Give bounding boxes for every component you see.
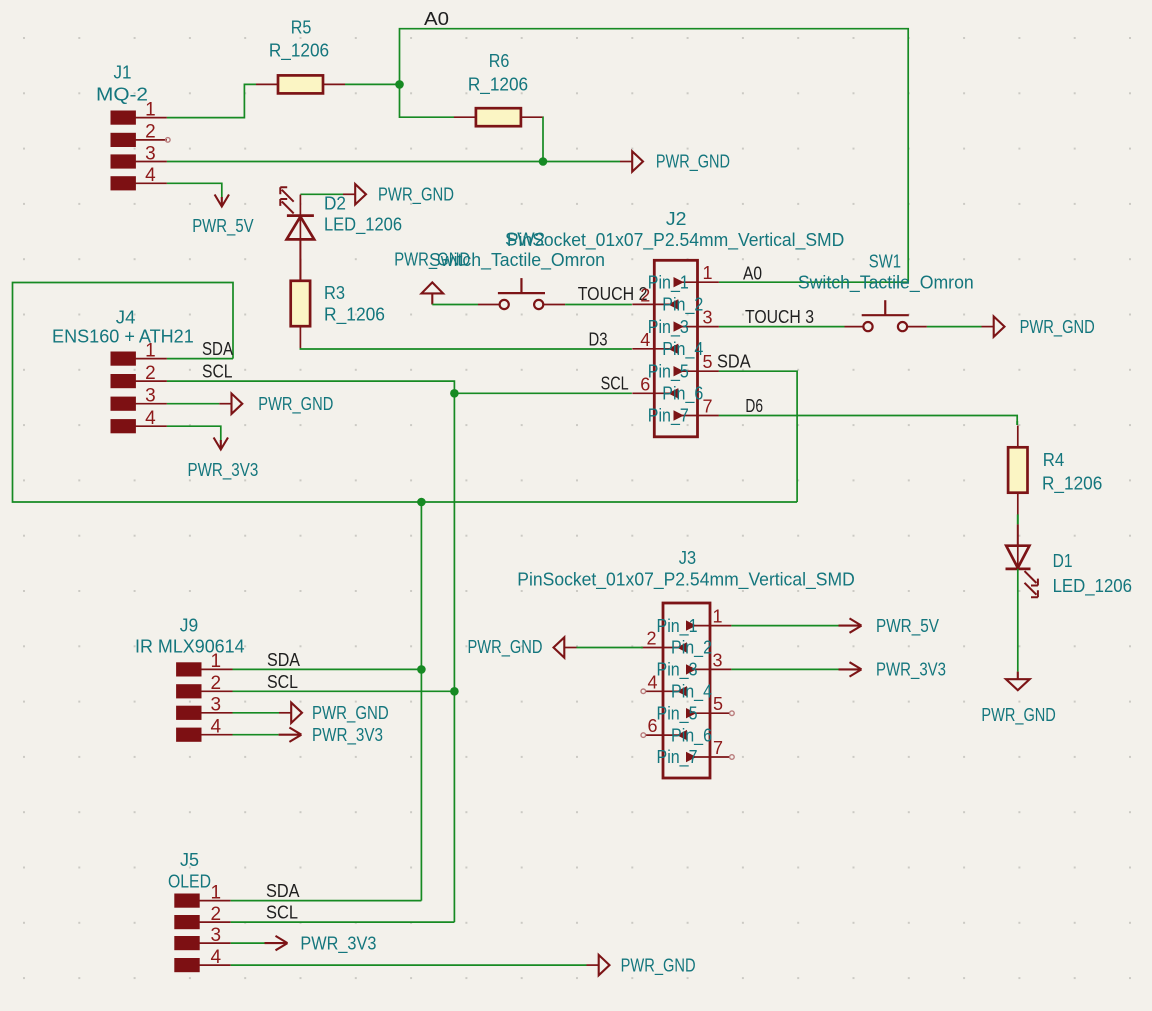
wire net SDA column down to J5: [420, 502, 422, 901]
power symbol PWR_3V3 arrow (J9): [279, 728, 302, 742]
svg-text:SDA: SDA: [267, 650, 300, 670]
wire SW1 to PWR_GND: [927, 326, 982, 328]
wire J5 pin3 to PWR_3V3: [231, 942, 265, 944]
power flag PWR_GND (D2): [343, 184, 366, 204]
wire R6 down to GND row: [542, 117, 544, 161]
svg-text:R6: R6: [489, 51, 510, 71]
wire net A0: R5/R6 junction to J2 pin1 column: [400, 29, 909, 283]
connector J9 pin 4 pad: [177, 717, 233, 742]
switch SW1 left stub: [845, 326, 864, 328]
svg-text:SCL: SCL: [601, 374, 629, 394]
connector J2 pin 1: [648, 263, 719, 293]
connector J1 pin 1 pad: [111, 99, 167, 124]
switch SW1 (tactile): [862, 300, 909, 331]
wire J4 pin1 SDA: [167, 358, 233, 360]
junction SCL branch: [450, 389, 459, 398]
svg-text:3: 3: [145, 143, 156, 164]
connector J1 pin 4 pad: [111, 165, 167, 190]
svg-text:6: 6: [640, 374, 650, 394]
svg-text:SW1: SW1: [869, 251, 901, 271]
svg-text:Pin_4: Pin_4: [671, 682, 712, 703]
svg-text:J9: J9: [180, 615, 198, 635]
wire PWR_GND to J3 pin2: [577, 647, 643, 649]
junction SDA at J9: [417, 665, 426, 674]
svg-text:PWR_3V3: PWR_3V3: [312, 725, 383, 746]
wire D1 anode lead: [1017, 524, 1019, 545]
connector J5 pin 4 pad: [175, 947, 231, 972]
svg-text:2: 2: [145, 122, 156, 143]
svg-text:SDA: SDA: [717, 352, 751, 372]
svg-text:SDA: SDA: [202, 339, 233, 359]
svg-text:MQ-2: MQ-2: [96, 84, 148, 104]
svg-text:PinSocket_01x07_P2.54mm_Vertic: PinSocket_01x07_P2.54mm_Vertical_SMD: [517, 570, 855, 591]
wire D2 anode to R3 (dark red leads): [299, 240, 301, 282]
svg-text:Pin_7: Pin_7: [648, 406, 689, 427]
svg-text:PWR_GND: PWR_GND: [378, 184, 454, 205]
power flag PWR_GND (J1 pin3 row): [620, 151, 643, 171]
power symbol PWR_5V arrow: [215, 195, 229, 207]
svg-text:3: 3: [712, 650, 722, 670]
wire net SDA loop to J4 pin1: [13, 283, 798, 503]
svg-text:Pin_7: Pin_7: [657, 747, 698, 768]
svg-text:PWR_GND: PWR_GND: [1020, 317, 1095, 338]
connector J2 body outline: [654, 260, 697, 437]
connector J9 pin 2 pad: [177, 673, 233, 698]
power flag PWR_GND down (D1): [1006, 679, 1030, 690]
junction A0 at R5/R6: [395, 80, 404, 89]
svg-text:LED_1206: LED_1206: [1053, 576, 1132, 597]
connector J3 body outline: [663, 603, 710, 778]
svg-text:4: 4: [647, 672, 657, 692]
svg-text:3: 3: [211, 695, 222, 716]
wire J1 pin4 to PWR_5V: [167, 183, 222, 197]
svg-text:3: 3: [211, 925, 222, 946]
svg-text:R_1206: R_1206: [468, 75, 528, 96]
svg-text:OLED: OLED: [168, 872, 211, 892]
svg-text:SCL: SCL: [267, 672, 298, 692]
svg-text:4: 4: [211, 947, 222, 968]
wire D2 cathode to PWR_GND: [300, 193, 343, 195]
wire J5 pin2 SCL: [231, 921, 455, 923]
wire D1 cathode to PWR_GND: [1017, 569, 1019, 672]
svg-text:7: 7: [713, 738, 723, 758]
svg-text:A0: A0: [424, 9, 449, 29]
wire J5 pin4 to PWR_GND: [231, 964, 587, 966]
resistor R5: [256, 75, 345, 93]
switch SW2 (tactile): [498, 278, 545, 309]
svg-text:J3: J3: [679, 548, 696, 568]
connector J2 pin 4: [632, 330, 703, 360]
no-connect circle J3 pin 6: [641, 733, 646, 738]
connector J3 pin 1: [657, 607, 732, 637]
wire J3 pin3 to PWR_3V3: [731, 668, 838, 670]
connector J9 pin 3 pad: [177, 695, 233, 720]
svg-text:4: 4: [145, 408, 156, 429]
svg-text:1: 1: [145, 340, 156, 361]
switch SW2 right stub: [543, 304, 565, 306]
svg-text:7: 7: [702, 397, 712, 417]
svg-text:PWR_GND: PWR_GND: [258, 394, 333, 415]
svg-text:ENS160 + ATH21: ENS160 + ATH21: [52, 327, 194, 347]
svg-text:TOUCH 3: TOUCH 3: [745, 307, 814, 327]
svg-text:2: 2: [211, 904, 222, 925]
connector J5 pin 2 pad: [175, 904, 231, 929]
svg-text:R4: R4: [1043, 450, 1065, 470]
power symbol PWR_3V3 arrow (J4): [214, 438, 228, 450]
svg-text:PWR_GND: PWR_GND: [621, 955, 696, 976]
connector J1 pin 3 pad: [111, 143, 167, 168]
svg-text:J1: J1: [114, 62, 132, 82]
svg-text:Pin_1: Pin_1: [648, 272, 689, 293]
switch SW2 left stub: [478, 304, 500, 306]
svg-text:R_1206: R_1206: [324, 304, 385, 325]
svg-text:PWR_GND: PWR_GND: [468, 637, 543, 658]
power symbol PWR_3V3 arrow (J3 pin3): [839, 662, 862, 676]
connector J4 pin 2 pad: [111, 363, 167, 388]
no-connect circle J3 pin 4: [641, 689, 646, 694]
wire J9 pin4 to PWR_3V3: [233, 734, 279, 736]
svg-text:SCL: SCL: [266, 903, 298, 923]
wire J4 pin3 to PWR_GND: [167, 403, 219, 405]
switch SW1 right stub: [907, 326, 927, 328]
svg-text:1: 1: [712, 607, 722, 627]
svg-text:PWR_3V3: PWR_3V3: [300, 933, 376, 954]
power flag PWR_GND (J5 pin4): [587, 955, 610, 975]
power flag PWR_GND up (SW2 left): [422, 282, 444, 293]
svg-text:J5: J5: [180, 850, 199, 870]
power flag PWR_GND left (J3 pin2): [554, 637, 577, 657]
svg-text:3: 3: [702, 308, 712, 328]
svg-text:Pin_3: Pin_3: [648, 317, 689, 338]
junction SCL at J9: [450, 687, 459, 696]
svg-text:Pin_3: Pin_3: [657, 660, 698, 681]
svg-text:4: 4: [145, 165, 156, 186]
svg-text:Pin_6: Pin_6: [662, 384, 703, 405]
no-connect circle J3 pin 5: [730, 711, 735, 716]
power symbol PWR_5V arrow (J3 pin1): [839, 618, 862, 632]
junction R6/J1-pin3: [539, 157, 548, 166]
svg-text:1: 1: [211, 651, 222, 672]
svg-text:2: 2: [640, 285, 650, 305]
svg-text:Pin_4: Pin_4: [662, 339, 703, 360]
svg-text:3: 3: [145, 386, 156, 407]
connector J2 pin 7: [648, 397, 719, 427]
svg-text:J2: J2: [666, 209, 687, 229]
connector J3 pin 2: [641, 629, 712, 659]
wire J4 pin4 to PWR_3V3: [167, 426, 221, 440]
svg-text:PWR_5V: PWR_5V: [876, 616, 939, 637]
LED D2: [280, 187, 314, 239]
svg-text:SDA: SDA: [266, 881, 300, 901]
svg-text:PWR_GND: PWR_GND: [656, 152, 730, 173]
wire net D6: J2 pin7 to R4: [719, 416, 1017, 422]
power flag PWR_GND (SW1): [982, 316, 1005, 336]
no-connect circle J3 pin 7: [730, 755, 735, 760]
connector J3 pin 5: [657, 694, 730, 724]
svg-text:D1: D1: [1053, 551, 1073, 571]
wire PWR_GND to SW2: [432, 304, 478, 306]
svg-text:J4: J4: [116, 308, 136, 328]
wire J1 pin1 to R5: [167, 84, 256, 117]
wire net SCL column down to J5: [453, 393, 455, 922]
svg-text:2: 2: [145, 363, 156, 384]
connector J9 pin 1 pad: [177, 651, 233, 676]
svg-text:6: 6: [647, 716, 657, 736]
svg-text:2: 2: [646, 629, 656, 649]
connector J3 pin 3: [657, 650, 732, 680]
svg-text:SCL: SCL: [202, 362, 233, 382]
svg-text:LED_1206: LED_1206: [324, 214, 402, 235]
wire J4 pin2 SCL to junction: [167, 381, 455, 393]
svg-text:5: 5: [713, 694, 723, 714]
LED D1: [1006, 546, 1038, 598]
svg-text:5: 5: [702, 352, 712, 372]
svg-text:R5: R5: [291, 18, 312, 38]
svg-text:Pin_5: Pin_5: [648, 361, 689, 382]
wire net SDA: J2 pin5 right and down: [719, 371, 797, 502]
wire R4 top lead: [1016, 421, 1018, 425]
svg-text:Switch_Tactile_Omron: Switch_Tactile_Omron: [429, 250, 605, 271]
wire J9 pin3 to PWR_GND: [233, 712, 280, 714]
connector J3 pin 6: [646, 716, 712, 746]
svg-text:D6: D6: [745, 396, 763, 416]
wire J5 pin1 SDA: [231, 900, 422, 902]
connector J4 pin 3 pad: [111, 386, 167, 411]
svg-text:PWR_GND: PWR_GND: [312, 703, 389, 724]
wire J1 pin3 to PWR_GND: [167, 161, 620, 163]
connector J2 pin 5: [648, 352, 719, 382]
power flag stem (D1 PWR_GND): [1017, 672, 1019, 680]
svg-text:1: 1: [145, 99, 156, 120]
wire J9 pin1 SDA: [233, 668, 422, 670]
connector J5 pin 3 pad: [175, 925, 231, 950]
svg-text:A0: A0: [743, 263, 762, 283]
wire junction down to R6: [400, 84, 455, 117]
wire net A0: J2 pin1 to SW1 column: [719, 281, 908, 283]
connector J3 pin 7: [657, 738, 730, 768]
svg-text:Pin_2: Pin_2: [671, 638, 712, 659]
svg-text:1: 1: [211, 882, 222, 903]
svg-text:R3: R3: [324, 283, 345, 303]
connector J1 pin 2 pad: [111, 122, 167, 147]
wire J9 pin2 SCL: [233, 690, 455, 692]
connector J4 pin 4 pad: [111, 408, 167, 433]
connector J4 pin 1 pad: [111, 340, 167, 365]
connector J2 pin 2: [632, 285, 703, 315]
power flag PWR_GND (J9 pin3): [279, 703, 302, 723]
resistor R4: [1008, 426, 1027, 515]
svg-text:Pin_6: Pin_6: [671, 725, 712, 746]
power symbol PWR_3V3 arrow (J5 pin3): [265, 936, 288, 950]
svg-text:4: 4: [211, 717, 222, 738]
connector J5 pin 1 pad: [175, 882, 231, 907]
svg-text:PinSocket_01x07_P2.54mm_Vertic: PinSocket_01x07_P2.54mm_Vertical_SMD: [507, 230, 845, 251]
svg-text:IR MLX90614: IR MLX90614: [135, 636, 245, 656]
resistor R6: [454, 108, 543, 126]
svg-text:PWR_GND: PWR_GND: [981, 705, 1056, 726]
no-connect circle J1 pin 2: [166, 138, 171, 143]
svg-text:D2: D2: [324, 193, 346, 213]
connector J3 pin 4: [646, 672, 712, 702]
wire net TOUCH 3: J2 pin3 to SW1: [719, 326, 845, 328]
wire net SCL: to J2 pin6: [454, 392, 632, 394]
svg-text:TOUCH 2: TOUCH 2: [578, 284, 648, 304]
resistor R3: [291, 259, 310, 348]
power flag stem: [431, 293, 433, 304]
wire J3 pin1 to PWR_5V: [731, 625, 838, 627]
wire R4 to D1 (green segment): [1017, 514, 1019, 524]
svg-text:R_1206: R_1206: [1042, 473, 1102, 494]
svg-text:D3: D3: [589, 329, 608, 349]
svg-text:4: 4: [640, 330, 650, 350]
wire R5 to junction: [345, 83, 400, 85]
svg-text:PWR_5V: PWR_5V: [192, 216, 253, 237]
svg-text:Pin_2: Pin_2: [662, 295, 703, 316]
power flag PWR_GND (J4 pin3): [219, 394, 242, 414]
junction SDA column: [417, 498, 426, 507]
svg-text:PWR_3V3: PWR_3V3: [188, 460, 259, 481]
svg-text:2: 2: [211, 673, 222, 694]
svg-text:Pin_1: Pin_1: [657, 616, 698, 637]
svg-text:Switch_Tactile_Omron: Switch_Tactile_Omron: [798, 272, 974, 293]
connector J2 pin 3: [648, 308, 719, 338]
wire net TOUCH 2: SW2 to J2 pin2: [565, 304, 632, 306]
svg-text:PWR_3V3: PWR_3V3: [876, 660, 946, 681]
svg-text:1: 1: [702, 263, 712, 283]
svg-text:R_1206: R_1206: [269, 41, 329, 62]
svg-text:Pin_5: Pin_5: [657, 703, 698, 724]
connector J2 pin 6: [632, 374, 703, 404]
wire net D3: R3 bottom to J2 pin4: [300, 348, 632, 349]
